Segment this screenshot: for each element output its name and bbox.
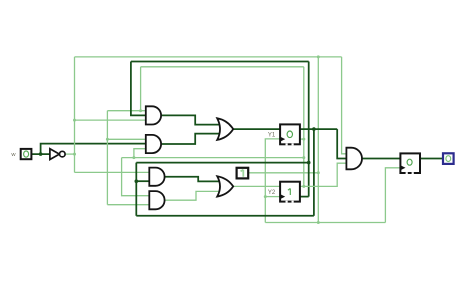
node probe wire junction	[317, 171, 320, 174]
wire Y2 Qbar drop x130.9 to AND1 input 2	[131, 62, 146, 116]
wire to AND3 input 2	[136, 180, 149, 182]
probe box	[237, 168, 249, 179]
wire mid horizontal y157.6	[122, 157, 304, 159]
wire probe to w' vertical	[248, 172, 318, 174]
wire clock stub to Y2 clock	[265, 196, 280, 198]
or-gate OR2	[217, 176, 233, 196]
wire AND4 input 1 drop	[122, 158, 150, 196]
wire Y1 Qbar drop x140.6 to AND1 input 1	[140, 67, 142, 111]
wire w' branch x318.3 down to clock rail	[317, 57, 319, 223]
wire to AND2 input 1	[107, 138, 145, 140]
node w branch junction	[39, 152, 43, 156]
wire AND4 output to OR2 input 2	[164, 191, 222, 200]
node y157.6 junction	[132, 156, 135, 159]
wire AND1 input1 horizontal	[107, 110, 145, 112]
wire w' to AND1 input 3	[75, 119, 146, 121]
wire clock rail y222.5	[265, 222, 385, 224]
wire O box Q to output pin	[420, 158, 443, 160]
and-gate AND3	[149, 168, 164, 186]
wire w: pin to NOT gate	[31, 153, 50, 155]
wire Y1 Q vertical x314.7	[313, 129, 315, 216]
node w' branch junction top	[317, 55, 320, 58]
node Y1 Q branch junction	[312, 127, 316, 131]
output pin O	[443, 153, 454, 164]
flip-flop Y1	[280, 124, 300, 144]
node AND1 in1 junction	[139, 109, 142, 112]
wire Y2 Qbar top horizontal y61.5	[131, 61, 309, 63]
wire Y1 Qbar vertical x303.8	[303, 67, 305, 187]
node AND3 in2 junction	[135, 179, 139, 183]
wire left vertical x136.3	[135, 163, 137, 216]
wire Y1 Qbar stub	[300, 138, 304, 140]
wire Y2 Qbar stub	[300, 196, 309, 198]
wire Y2 Qbar vertical x308.7	[308, 62, 310, 197]
or-gate OR1	[217, 118, 233, 140]
wire to AND4 input 2	[107, 204, 149, 206]
wire w' right vertical x341.6 down to AND5 input 1	[342, 57, 347, 154]
wire Y1 Q drop to AND5 input 2	[337, 129, 346, 158]
svg-text:w: w	[10, 152, 16, 158]
wire Y1 Qbar top horizontal y66.8	[141, 66, 304, 68]
wire OR2 output to Y2 D	[233, 185, 280, 187]
and-gate AND4	[149, 191, 164, 209]
node Y1 Qbar stub junction	[302, 138, 305, 141]
and-gate AND2	[146, 135, 161, 153]
wire w' : NOT output to vertical x74.5	[65, 153, 74, 155]
wire AND2 input 3 riser	[134, 149, 146, 158]
wire AND3 output to OR2 input 1	[164, 177, 222, 182]
wire w' top horizontal y56.9	[75, 56, 342, 58]
wire Y1 Qbar left vertical x107.4	[106, 111, 108, 205]
flip-flop Y2	[280, 182, 300, 202]
input pin w	[21, 149, 32, 159]
node y162.6 junction on x308.7	[307, 161, 311, 165]
node w' junctions on x74.5	[73, 153, 76, 156]
wire AND2 output to OR1 input 2	[161, 134, 222, 144]
wire clock riser x265.3 to Y1 clock	[265, 139, 280, 223]
NOT gate	[50, 149, 65, 160]
node AND2 in1 junction	[106, 138, 109, 141]
svg-text:Y1: Y1	[268, 133, 276, 139]
wire OR1 output to Y1 D	[233, 128, 280, 130]
wire AND5 output to O box	[362, 158, 400, 160]
node clock junction Y2	[264, 195, 267, 198]
wire w: branch up to AND2 input 2	[41, 144, 146, 155]
wire Y2 Q to AND5 input 3	[300, 163, 347, 186]
wire w' vertical x74.5	[74, 57, 76, 172]
wire w' to AND3 input 1	[75, 171, 150, 173]
wire bottom horizontal y215.8	[136, 215, 314, 217]
and-gate AND1	[146, 106, 161, 124]
node clock rail junction	[317, 221, 320, 224]
flip-flop O	[400, 153, 420, 173]
flip-flop bottom pin notches Y1	[286, 143, 414, 202]
wire Y1 Q horizontal y129.1	[300, 128, 337, 130]
wire y162.6 horizontal to left	[136, 162, 308, 164]
and-gate AND5	[346, 148, 362, 170]
wire AND1 output to OR1 input 1	[161, 115, 222, 124]
svg-text:Y2: Y2	[268, 190, 276, 196]
wire clock riser x385.4 to O clock	[385, 168, 400, 223]
